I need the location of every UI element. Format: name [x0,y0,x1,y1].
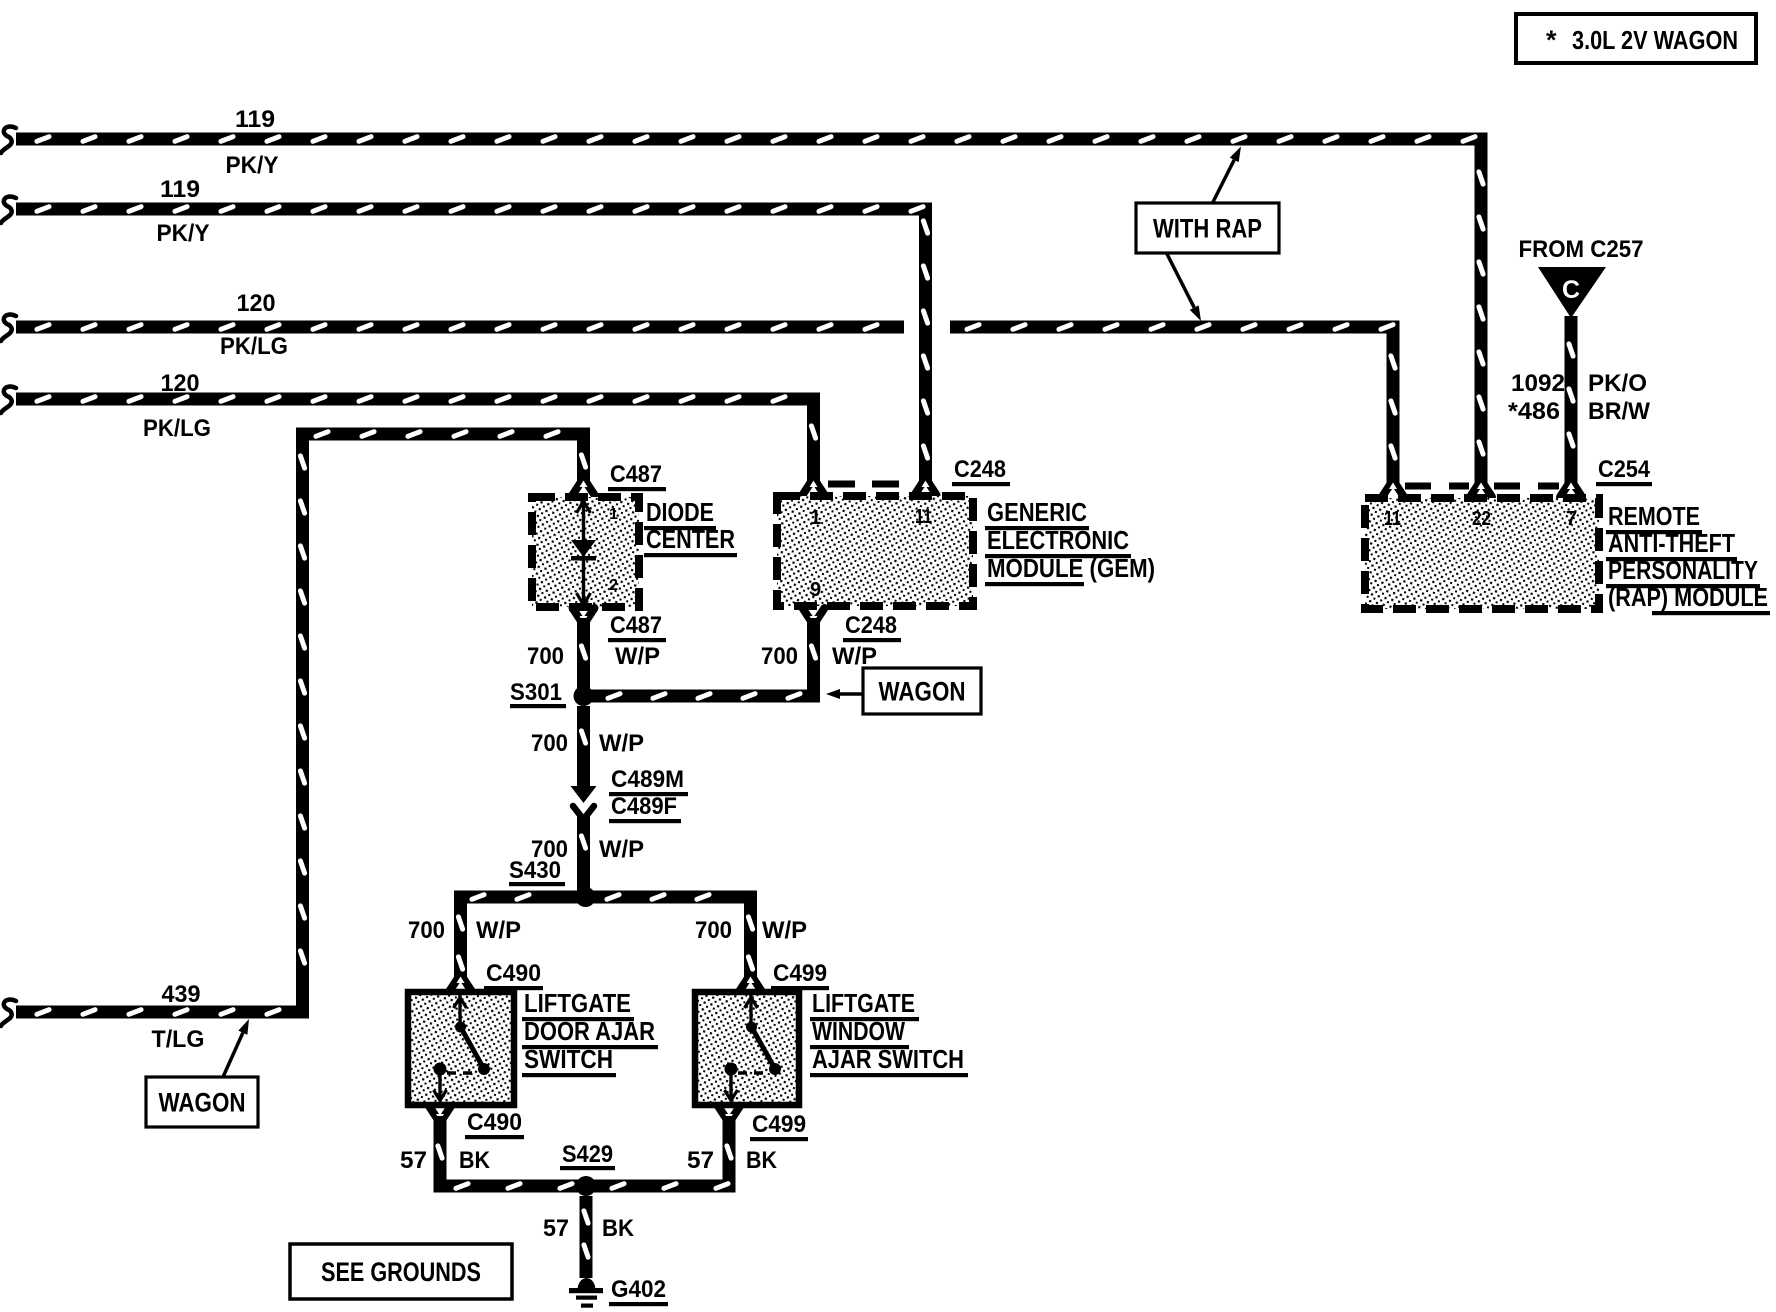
liftgate window ajar switch box [695,992,799,1105]
svg-text:120: 120 [237,290,276,317]
svg-text:W/P: W/P [615,643,660,670]
svg-text:3.0L 2V WAGON: 3.0L 2V WAGON [1572,25,1738,55]
splice S301 [574,686,594,706]
svg-text:C489F: C489F [611,793,677,820]
svg-text:S430: S430 [509,857,561,884]
arrow from WITH RAP to wire 119 [1212,160,1234,204]
svg-text:PERSONALITY: PERSONALITY [1608,555,1758,585]
wire 439 T/LG horizontal run to diode center [296,428,590,441]
wire 700 W/P from C487 to S301 [577,618,590,696]
wire 439 T/LG (bottom-left feed) [1,1000,16,1026]
wire 57 BK from S429 to ground [580,1196,593,1278]
svg-text:C489M: C489M [611,766,684,793]
svg-text:DOOR AJAR: DOOR AJAR [524,1016,655,1046]
wire 700 W/P right branch down [744,904,757,981]
inline connector C489M/C489F [571,786,597,803]
svg-text:PK/Y: PK/Y [157,220,210,247]
wire 119 PK/Y (top feed) [1,127,16,153]
callout box WAGON (wagon branch) [863,668,981,714]
svg-text:7: 7 [1566,508,1577,530]
svg-text:PK/Y: PK/Y [226,152,279,179]
svg-text:119: 119 [235,106,275,133]
arrow from WAGON box to wire [840,692,862,696]
svg-text:57: 57 [543,1215,569,1242]
svg-text:11: 11 [1384,508,1401,530]
svg-text:DIODE: DIODE [646,497,714,527]
switch SW2 inside C499 [749,995,752,1027]
svg-text:C248: C248 [845,612,897,639]
wire 700 W/P left branch down [454,904,467,981]
svg-text:119: 119 [160,176,200,203]
note box * 3.0L 2V WAGON [1516,14,1756,63]
wire 439 T/LG drop into C487 pin 1 [577,434,590,484]
svg-text:C490: C490 [467,1109,522,1136]
svg-text:C499: C499 [752,1111,806,1138]
svg-text:11: 11 [915,506,932,528]
svg-text:W/P: W/P [762,917,807,944]
connector triangle C (from C257) [1538,267,1606,318]
svg-text:SEE GROUNDS: SEE GROUNDS [321,1257,481,1287]
svg-text:PK/LG: PK/LG [220,333,288,360]
svg-text:57: 57 [687,1147,714,1174]
svg-text:W/P: W/P [599,730,644,757]
ground G402 [578,1278,596,1290]
svg-text:AJAR SWITCH: AJAR SWITCH [812,1044,964,1074]
svg-text:C487: C487 [610,461,662,488]
svg-text:120: 120 [161,370,200,397]
wire 119 PK/Y vertical drop to GEM pin 11 [919,216,932,485]
wire 57 BK from C499 [723,1116,736,1186]
svg-text:ANTI-THEFT: ANTI-THEFT [1608,528,1735,558]
svg-text:FROM C257: FROM C257 [1519,236,1644,263]
callout box WAGON (439 wire) [146,1077,258,1127]
svg-text:WAGON: WAGON [879,677,966,707]
svg-text:LIFTGATE: LIFTGATE [524,988,631,1018]
svg-text:ELECTRONIC: ELECTRONIC [987,525,1129,555]
remote anti-theft personality (RAP) module box [1365,498,1599,609]
wire 120 PK/LG (third feed, breaks at crossover) [1,315,16,341]
wire 700 W/P from C489 to S430 [577,815,590,891]
wire 120 PK/LG vertical drop to GEM pin 1 [807,406,820,485]
svg-text:1: 1 [810,507,821,529]
wire 119 PK/Y (second feed) [1,197,16,223]
callout box SEE GROUNDS [290,1244,512,1299]
svg-text:BK: BK [459,1147,491,1174]
svg-text:WINDOW: WINDOW [812,1016,905,1046]
svg-text:BK: BK [602,1215,635,1242]
svg-text:57: 57 [400,1147,427,1174]
arrow from WITH RAP to wire 120 [1167,253,1195,308]
wire 439 T/LG vertical riser [296,434,309,1012]
svg-text:*486: *486 [1508,398,1560,425]
callout box WITH RAP [1136,203,1279,253]
svg-text:T/LG: T/LG [152,1026,205,1053]
svg-text:700: 700 [527,643,564,670]
svg-text:PK/LG: PK/LG [143,415,211,442]
svg-text:700: 700 [531,730,568,757]
diode D1 inside diode center [582,499,585,605]
svg-text:CENTER: CENTER [646,524,735,554]
liftgate door ajar switch box [408,992,514,1105]
splice S429 node [576,1176,596,1196]
splice bar S429 [434,1180,736,1193]
wire 700 W/P from C248 pin 9 down [807,618,820,690]
wire 119 PK/Y vertical drop to RAP pin 22 [1475,146,1488,487]
svg-text:WITH RAP: WITH RAP [1153,214,1262,244]
svg-text:439: 439 [162,981,201,1008]
svg-text:C: C [1562,276,1580,304]
svg-text:1092: 1092 [1511,370,1565,397]
svg-text:G402: G402 [611,1276,666,1303]
svg-text:700: 700 [695,917,732,944]
diode center module box [532,497,639,607]
svg-text:REMOTE: REMOTE [1608,501,1700,531]
wire 700 W/P horizontal into S301 [584,690,821,703]
svg-text:1: 1 [609,506,618,523]
svg-text:S301: S301 [510,679,562,706]
svg-text:W/P: W/P [599,836,644,863]
splice bar S430 [454,891,757,904]
svg-text:LIFTGATE: LIFTGATE [812,988,915,1018]
wire 700 W/P from S301 to C489 [577,706,590,788]
connector face dashes C248 [828,481,910,488]
generic electronic module (GEM) box [777,496,973,606]
svg-text:*: * [1546,25,1557,55]
svg-text:PK/O: PK/O [1588,370,1647,397]
svg-text:SWITCH: SWITCH [524,1044,613,1074]
connector C499 label (bottom) [718,1106,740,1119]
arrow from WAGON to 439 wire [223,1033,243,1077]
wire 120 PK/LG (fourth feed) [1,387,16,413]
svg-text:GENERIC: GENERIC [987,497,1087,527]
svg-text:9: 9 [810,579,821,601]
svg-text:2: 2 [609,577,618,594]
switch SW1 inside C490 [458,995,461,1027]
svg-text:S429: S429 [562,1141,613,1168]
svg-text:MODULE (GEM): MODULE (GEM) [987,553,1155,583]
wire 120 PK/LG vertical drop to RAP pin 11 [1387,334,1400,487]
connector C490 label (bottom) [429,1106,451,1119]
svg-text:700: 700 [408,917,445,944]
svg-text:BR/W: BR/W [1588,398,1650,425]
wire 57 BK from C490 [434,1116,447,1186]
svg-text:700: 700 [761,643,798,670]
svg-text:W/P: W/P [476,917,521,944]
svg-text:W/P: W/P [832,643,877,670]
svg-text:C490: C490 [486,960,541,987]
svg-text:(RAP) MODULE: (RAP) MODULE [1608,582,1768,612]
wire 1092 PK/O drop to RAP pin 7 [1565,316,1578,486]
svg-text:C487: C487 [610,612,662,639]
svg-text:22: 22 [1472,508,1491,530]
splice S430 node [576,887,596,907]
connector face dashes C254 [1405,483,1469,490]
svg-text:C254: C254 [1598,456,1651,483]
svg-text:C248: C248 [954,456,1006,483]
svg-text:WAGON: WAGON [159,1088,246,1118]
svg-text:C499: C499 [773,960,827,987]
svg-text:BK: BK [746,1147,778,1174]
